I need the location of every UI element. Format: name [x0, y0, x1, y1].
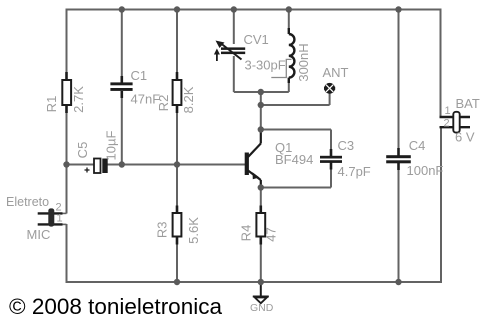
value 100nF — [407, 163, 444, 178]
wire emitter to R4 — [260, 188, 262, 214]
leader bracket CV1 — [271, 59, 291, 77]
svg-text:10µF: 10µF — [103, 131, 118, 161]
resistor R1 — [62, 72, 71, 113]
capacitor C1 — [110, 76, 132, 98]
node top C4 — [395, 6, 401, 12]
pin 1 MIC — [57, 213, 63, 225]
svg-text:Eletreto: Eletreto — [6, 195, 49, 209]
svg-text:2: 2 — [444, 118, 450, 130]
svg-text:3-30pF: 3-30pF — [245, 58, 286, 73]
value 4.7pF — [338, 164, 371, 179]
svg-text:300nH: 300nH — [296, 43, 311, 81]
node collector — [258, 126, 264, 132]
svg-text:CV1: CV1 — [244, 32, 269, 47]
svg-text:2.7K: 2.7K — [71, 86, 86, 113]
wire top supply rail — [67, 10, 441, 214]
node bottom R3 — [174, 279, 180, 285]
svg-text:BF494: BF494 — [275, 152, 313, 167]
svg-text:R3: R3 — [154, 221, 169, 238]
resistor R2 — [173, 72, 182, 113]
label ANT — [323, 65, 349, 80]
microphone MIC connector — [38, 208, 67, 226]
value 3-30pF — [245, 58, 286, 73]
wire ANT tap — [261, 93, 330, 106]
wire R2 branch — [176, 10, 178, 81]
label MIC — [27, 227, 51, 242]
svg-text:1: 1 — [57, 213, 63, 225]
node top L1 — [286, 6, 292, 12]
wire bottom ground rail — [67, 127, 442, 282]
pin 1 BAT — [445, 105, 451, 117]
capacitor C3 — [320, 149, 342, 170]
node ANT tap — [258, 102, 264, 108]
node top R2 — [174, 6, 180, 12]
wire C4 branch — [398, 10, 400, 283]
label R4 — [238, 225, 253, 242]
wire C1 branch lower — [121, 97, 123, 165]
wire CV1 branch — [233, 10, 235, 93]
svg-text:100nF: 100nF — [407, 163, 444, 178]
svg-text:C4: C4 — [409, 138, 426, 153]
value 8.2K — [181, 86, 196, 113]
value 47nF — [131, 92, 161, 107]
label R2 — [156, 95, 171, 112]
svg-text:© 2008 tonieletronica: © 2008 tonieletronica — [9, 294, 222, 319]
svg-text:ANT: ANT — [323, 65, 349, 80]
svg-text:5.6K: 5.6K — [186, 217, 201, 244]
node base R2R3 — [174, 161, 180, 167]
wire base node horizontal — [67, 164, 246, 166]
node tank bottom — [258, 89, 264, 95]
value 10uF — [103, 131, 118, 161]
value 6 V — [455, 130, 475, 145]
wire R2 to R3 node — [176, 105, 178, 213]
label C3 — [338, 138, 355, 153]
label R1 — [44, 96, 59, 113]
inductor L1 — [289, 28, 295, 83]
node emitter — [258, 184, 264, 190]
wire L1 branch — [288, 10, 290, 93]
wire emitter to C3 — [261, 169, 331, 188]
copyright text — [9, 294, 222, 319]
trimmer capacitor CV1 — [214, 41, 245, 62]
svg-text:47: 47 — [263, 227, 278, 241]
svg-text:1: 1 — [445, 105, 451, 117]
label C1 — [131, 68, 148, 83]
label BF494 — [275, 152, 313, 167]
svg-text:C3: C3 — [338, 138, 355, 153]
node bottom GND — [258, 279, 264, 285]
label C4 — [409, 138, 426, 153]
label C5 — [75, 142, 90, 159]
value 5.6K — [186, 217, 201, 244]
pin 2 MIC — [56, 202, 62, 214]
resistor R3 — [173, 206, 182, 245]
node top C1 — [119, 6, 125, 12]
svg-text:4.7pF: 4.7pF — [338, 164, 371, 179]
capacitor C5 electrolytic — [85, 159, 108, 174]
transistor Q1 — [245, 130, 261, 189]
battery BAT connector — [440, 112, 471, 133]
resistor R4 — [256, 206, 265, 245]
ground GND — [253, 282, 269, 303]
svg-text:BAT: BAT — [456, 96, 480, 111]
svg-text:R2: R2 — [156, 95, 171, 112]
svg-text:6 V: 6 V — [455, 130, 475, 145]
label Q1 — [275, 140, 292, 155]
value 300nH — [296, 43, 311, 81]
label GND — [250, 302, 274, 314]
value 2.7K — [71, 86, 86, 113]
svg-text:GND: GND — [250, 302, 274, 314]
svg-text:C1: C1 — [131, 68, 148, 83]
label Eletreto — [6, 195, 49, 209]
node base left — [63, 161, 69, 167]
capacitor C4 — [386, 148, 411, 170]
wire R4 to bottom rail — [260, 237, 262, 283]
svg-text:8.2K: 8.2K — [181, 86, 196, 113]
svg-text:C5: C5 — [75, 142, 90, 159]
wire tank bottom — [234, 91, 289, 93]
node top CV1 — [231, 6, 237, 12]
label R3 — [154, 221, 169, 238]
node base C1 — [119, 161, 125, 167]
antenna ANT pad — [324, 83, 335, 94]
value 47 — [263, 227, 278, 241]
pin 2 BAT — [444, 118, 450, 130]
wire tank to collector — [260, 92, 262, 130]
svg-text:R4: R4 — [238, 225, 253, 242]
svg-text:R1: R1 — [44, 96, 59, 113]
label CV1 — [244, 32, 269, 47]
label BAT — [456, 96, 480, 111]
wire collector to C3 — [261, 130, 331, 150]
node bottom C4 — [395, 279, 401, 285]
wire C1 branch upper — [121, 10, 123, 77]
wire R3 to bottom rail — [176, 237, 178, 283]
svg-text:MIC: MIC — [27, 227, 51, 242]
